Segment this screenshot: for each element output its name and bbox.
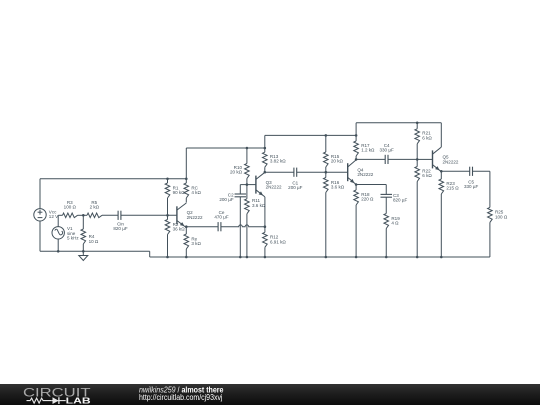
wire R10 top lead (246, 148, 248, 164)
voltage source Vcc (34, 209, 46, 221)
svg-text:LAB: LAB (66, 395, 91, 405)
wire V1 top (57, 215, 59, 226)
svg-text:R23215 Ω: R23215 Ω (446, 181, 459, 191)
wire R25 bottom lead (489, 222, 491, 257)
resistor R21 (415, 129, 420, 144)
wire rail C-D riser (355, 123, 357, 136)
wire Vcc bottom (39, 221, 41, 251)
svg-text:R236 kΩ: R236 kΩ (173, 222, 186, 232)
wire Ce to R12 with hops (221, 225, 265, 227)
wire RC top lead (185, 179, 187, 183)
wire C2 drop (239, 185, 241, 194)
wire rail B-C riser (264, 135, 266, 148)
wire Q2 emitter stub (185, 226, 187, 228)
wire input row start (58, 214, 62, 216)
capacitor C3 (381, 193, 393, 195)
svg-text:R171.2 kΩ: R171.2 kΩ (361, 143, 375, 153)
svg-text:C3820 µF: C3820 µF (393, 193, 407, 203)
svg-text:Vcc12 V: Vcc12 V (49, 209, 59, 219)
wire R22 bottom lead (416, 182, 418, 258)
wire Q4 base row (326, 171, 348, 173)
svg-text:R52 kΩ: R52 kΩ (90, 200, 100, 210)
svg-text:R1520 kΩ: R1520 kΩ (331, 154, 344, 164)
svg-text:R410 Ω: R410 Ω (89, 234, 99, 244)
node R4 bottom (82, 250, 85, 253)
wire R18 top lead (355, 185, 357, 191)
node R19 bottom (385, 256, 388, 259)
svg-text:R18220 Ω: R18220 Ω (361, 192, 374, 202)
wire R15 bottom lead (325, 167, 327, 172)
svg-text:R3100 Ω: R3100 Ω (64, 200, 77, 210)
wire C3 drop (385, 185, 387, 195)
wire C4 left (356, 158, 385, 160)
wire Q4 emitter stub (355, 184, 357, 186)
node R18 bottom (355, 256, 358, 259)
wire R19 bottom lead (385, 229, 387, 258)
resistor R11 (245, 199, 250, 214)
resistor R23 (439, 179, 444, 194)
node R16 bottom (325, 256, 328, 259)
resistor R4 (81, 229, 86, 244)
svg-text:R194 Ω: R194 Ω (391, 216, 400, 226)
svg-text:C4330 µF: C4330 µF (379, 143, 393, 153)
wire R4 top lead (82, 215, 84, 229)
wire R13 top lead (264, 148, 266, 152)
resistor R22 (415, 167, 420, 182)
wire R12 top lead (264, 227, 266, 233)
wire C1 left (265, 171, 294, 173)
capacitor Ce (217, 222, 219, 231)
svg-text:Ce470 µF: Ce470 µF (214, 210, 228, 220)
wire bottom rail left (40, 250, 150, 252)
wire R13 bottom lead (264, 167, 266, 172)
wire rail B (186, 147, 264, 149)
svg-text:R190 kΩ: R190 kΩ (173, 185, 186, 195)
svg-text:C5330 µF: C5330 µF (464, 180, 478, 190)
node R11 bottom (246, 256, 249, 259)
node R1 top (166, 178, 169, 181)
node R21 top (416, 122, 419, 125)
resistor R12 (263, 232, 268, 247)
svg-text:C2200 µF: C2200 µF (219, 192, 234, 202)
wire Vcc top (39, 179, 41, 209)
wire rail C (265, 134, 356, 136)
svg-text:RC4 kΩ: RC4 kΩ (191, 185, 201, 195)
wire R23 bottom lead (440, 194, 442, 257)
svg-text:C1200 µF: C1200 µF (288, 180, 302, 190)
capacitor C4 (384, 155, 386, 164)
wire rail A-B riser (185, 148, 187, 179)
node base Q2 (166, 214, 169, 217)
node R21/R22 (416, 158, 419, 161)
svg-text:R126.91 kΩ: R126.91 kΩ (270, 235, 286, 245)
wire Re top lead (185, 227, 187, 234)
node V1 bottom (57, 250, 60, 253)
wire R22 top lead (416, 159, 418, 166)
resistor R25 (488, 207, 493, 222)
wire R12 bottom lead (264, 247, 266, 257)
node Q4 emitter (355, 183, 358, 186)
wire Q3 emitter down (264, 197, 266, 227)
logo resistor-diode glyph (27, 398, 52, 403)
wire R17 top lead (355, 135, 357, 141)
svg-text:R133.82 kΩ: R133.82 kΩ (270, 154, 286, 164)
wire R17 bottom lead (355, 156, 357, 159)
wire output drop (489, 171, 491, 207)
resistor R13 (263, 152, 268, 167)
resistor R5 (87, 213, 102, 218)
wire C3-R19 (385, 197, 387, 213)
node Re bottom (185, 256, 188, 259)
wire R11 bottom lead (246, 214, 248, 257)
node Q2 emitter (185, 225, 188, 228)
wire Cin-Q2base (121, 214, 177, 216)
svg-text:http://circuitlab.com/cj93xvj: http://circuitlab.com/cj93xvj (139, 393, 223, 402)
wire R21 top lead (416, 123, 418, 129)
wire R23 top lead (440, 171, 442, 179)
wire Re bottom lead (185, 249, 187, 257)
node R12 bottom (264, 256, 267, 259)
svg-text:Q42N2222: Q42N2222 (357, 167, 373, 177)
node R15/R16 (325, 171, 328, 174)
resistor R1 (165, 183, 170, 198)
node R22 bottom (416, 256, 419, 259)
transistor Q4 2N2222 (348, 160, 356, 185)
capacitor C5 (469, 167, 471, 176)
wire R2 top lead (167, 215, 169, 219)
wire R5-Cin (102, 214, 118, 216)
node R15 top (325, 134, 328, 137)
svg-text:R226 kΩ: R226 kΩ (422, 168, 432, 178)
wire Q2 collector up (185, 202, 187, 204)
resistor R18 (354, 190, 359, 205)
svg-text:R1020 kΩ: R1020 kΩ (230, 165, 243, 175)
wire bottom rail (150, 256, 490, 258)
node rail B end (264, 147, 267, 150)
wire C5 left (441, 170, 469, 172)
svg-text:R216 kΩ: R216 kΩ (422, 131, 432, 141)
transistor Q5 2N2222 (433, 147, 442, 172)
capacitor C1 (293, 168, 295, 177)
wire R18 bottom lead (355, 205, 357, 257)
wire C1 right (297, 171, 326, 173)
wire rail D (356, 122, 441, 124)
ground (79, 251, 88, 260)
svg-text:R163.6 kΩ: R163.6 kΩ (331, 180, 345, 190)
resistor R19 (384, 214, 389, 229)
node R2 bottom (166, 256, 169, 259)
wire R1 bottom lead (167, 198, 169, 215)
svg-text:R113.6 kΩ: R113.6 kΩ (252, 198, 266, 208)
wire R2 bottom lead (167, 235, 169, 258)
resistor R3 (63, 213, 78, 218)
wire R1 top lead (167, 179, 169, 183)
resistor R15 (324, 152, 329, 167)
wire R15 top lead (325, 135, 327, 152)
wire bottom rail step (149, 251, 151, 257)
resistor R10 (245, 164, 250, 179)
wire rail D drop to Q5 (440, 123, 442, 147)
node R17 top (355, 134, 358, 137)
wire Q5 base row (417, 158, 432, 160)
resistor R16 (324, 178, 329, 193)
wire R16 top lead (325, 172, 327, 177)
wire V1 bottom (57, 239, 59, 251)
node R10 top (246, 147, 249, 150)
wire R21 bottom lead (416, 144, 418, 160)
source V1 sine (52, 227, 64, 239)
node R3/R5/R4 (82, 214, 85, 217)
wire R3-R5 (78, 214, 88, 216)
svg-text:Re3 kΩ: Re3 kΩ (191, 236, 201, 246)
resistor R17 (354, 141, 359, 156)
svg-text:Q22N2222: Q22N2222 (187, 210, 203, 220)
svg-text:R25100 Ω: R25100 Ω (495, 210, 508, 220)
svg-text:Q52N2222: Q52N2222 (443, 155, 459, 165)
node Q3 emitter row (264, 225, 267, 228)
node Q5 emitter (440, 170, 443, 173)
resistor RC (184, 183, 189, 198)
capacitor Cin (117, 211, 119, 220)
wire Q3 base row (240, 184, 256, 186)
svg-text:Cin820 µF: Cin820 µF (113, 221, 127, 231)
svg-text:V1sine5 kHz: V1sine5 kHz (67, 226, 79, 240)
wire C4 right (388, 158, 417, 160)
wire C2 bottom (239, 197, 241, 257)
resistor Re (184, 234, 189, 249)
wire R16 bottom lead (325, 193, 327, 258)
node R23 bottom (440, 256, 443, 259)
wire C5 right (473, 170, 490, 172)
wire rail A (40, 178, 186, 180)
resistor R2 (165, 220, 170, 235)
transistor Q2 2N2222 (177, 203, 186, 228)
node Q3 collector (264, 171, 267, 174)
node Q4 collector (355, 158, 358, 161)
wire emitter row to Ce (186, 226, 218, 228)
wire R11 top lead (246, 185, 248, 199)
capacitor C2 (235, 193, 247, 195)
node Q3 base (246, 183, 249, 186)
wire R4 bottom lead (82, 244, 84, 251)
wire RC bottom lead (185, 198, 187, 203)
node C2 bottom (239, 256, 242, 259)
transistor Q3 2N2222 (256, 172, 265, 197)
wire Q4 emitter row (356, 184, 386, 186)
wire R10 bottom lead (246, 179, 248, 185)
node RC top (185, 178, 188, 181)
svg-text:Q32N2222: Q32N2222 (266, 180, 282, 190)
